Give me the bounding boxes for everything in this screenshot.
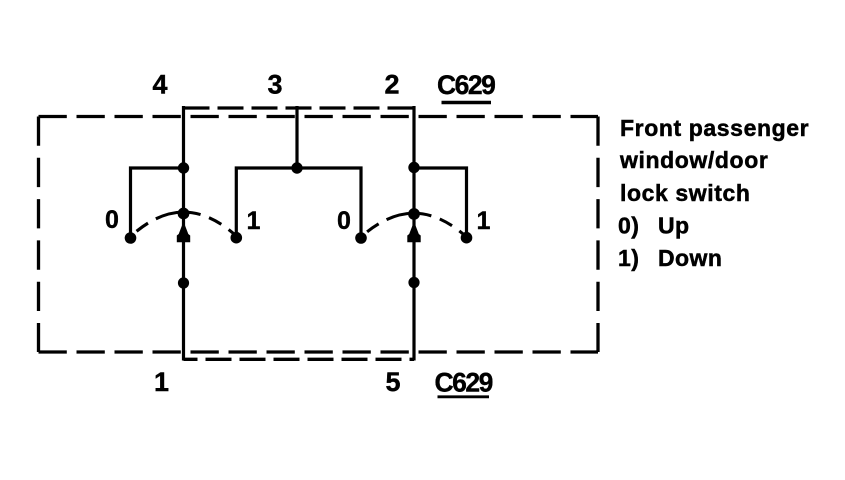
switch S2 contact 1 dot <box>461 232 473 244</box>
svg-text:1: 1 <box>247 207 261 235</box>
wire: pin 2 / right switch common vertical (pin 2 to pin 5) <box>412 106 415 361</box>
svg-text:1: 1 <box>154 367 169 397</box>
svg-text:3: 3 <box>267 70 282 100</box>
switch S1 apex node dot <box>178 208 190 220</box>
top dashed rail bus between pin 4 and pin 2 <box>184 106 415 109</box>
wire: pin 4 / left switch common vertical (pin 4 to pin 1) <box>182 106 185 361</box>
node: junction dot pin2 line / contact-1 branch <box>408 162 419 173</box>
bottom dashed rail bus between pin 1 and pin 5 <box>184 358 415 361</box>
node: junction dot pin3 line / bridge bar <box>291 162 302 173</box>
svg-text:lock switch: lock switch <box>620 180 751 206</box>
connector label C629 (top) underline <box>442 101 492 105</box>
wire: right switch contact-1 branch <box>414 168 467 234</box>
dashed component outline box: right edge <box>596 117 599 353</box>
svg-text:0: 0 <box>105 206 119 234</box>
wire: bridge bar from pin 3 to left contact-1 and right contact-0 <box>236 168 361 234</box>
switch S1 (left) dashed wiper arc <box>131 212 237 236</box>
svg-text:Front passenger: Front passenger <box>620 115 809 141</box>
dashed component outline box: left edge <box>37 117 40 353</box>
dashed component outline box: top edge <box>39 115 599 118</box>
svg-text:1): 1) <box>618 245 639 271</box>
svg-text:window/door: window/door <box>619 147 768 173</box>
switch S1 contact 1 dot <box>231 232 243 244</box>
node: dot on right common below switch <box>408 277 419 288</box>
svg-text:C629: C629 <box>437 70 495 100</box>
svg-text:0: 0 <box>337 207 351 235</box>
svg-text:1: 1 <box>477 207 491 235</box>
wire: left switch contact-0 branch <box>131 168 184 234</box>
svg-text:C629: C629 <box>435 368 493 398</box>
dashed component outline box: bottom edge <box>39 350 599 353</box>
node: dot on left common below switch <box>178 277 189 288</box>
svg-text:5: 5 <box>385 367 400 397</box>
switch S2 contact 0 dot <box>355 232 367 244</box>
wire: pin 3 vertical <box>295 106 298 168</box>
node: junction dot pin4 line / contact-0 branch <box>178 162 189 173</box>
switch S2 apex node dot <box>408 208 420 220</box>
svg-text:Up: Up <box>658 213 690 239</box>
connector label C629 (bottom) underline <box>438 395 490 398</box>
switch S2 (right) dashed wiper arc <box>361 213 467 237</box>
svg-text:Down: Down <box>658 245 722 271</box>
svg-text:2: 2 <box>384 70 399 100</box>
switch S1 wiper arrow head <box>177 222 190 243</box>
svg-text:0): 0) <box>618 213 639 239</box>
switch S1 contact 0 dot <box>125 232 137 244</box>
switch S2 wiper arrow head <box>407 222 420 243</box>
svg-text:4: 4 <box>152 70 167 100</box>
